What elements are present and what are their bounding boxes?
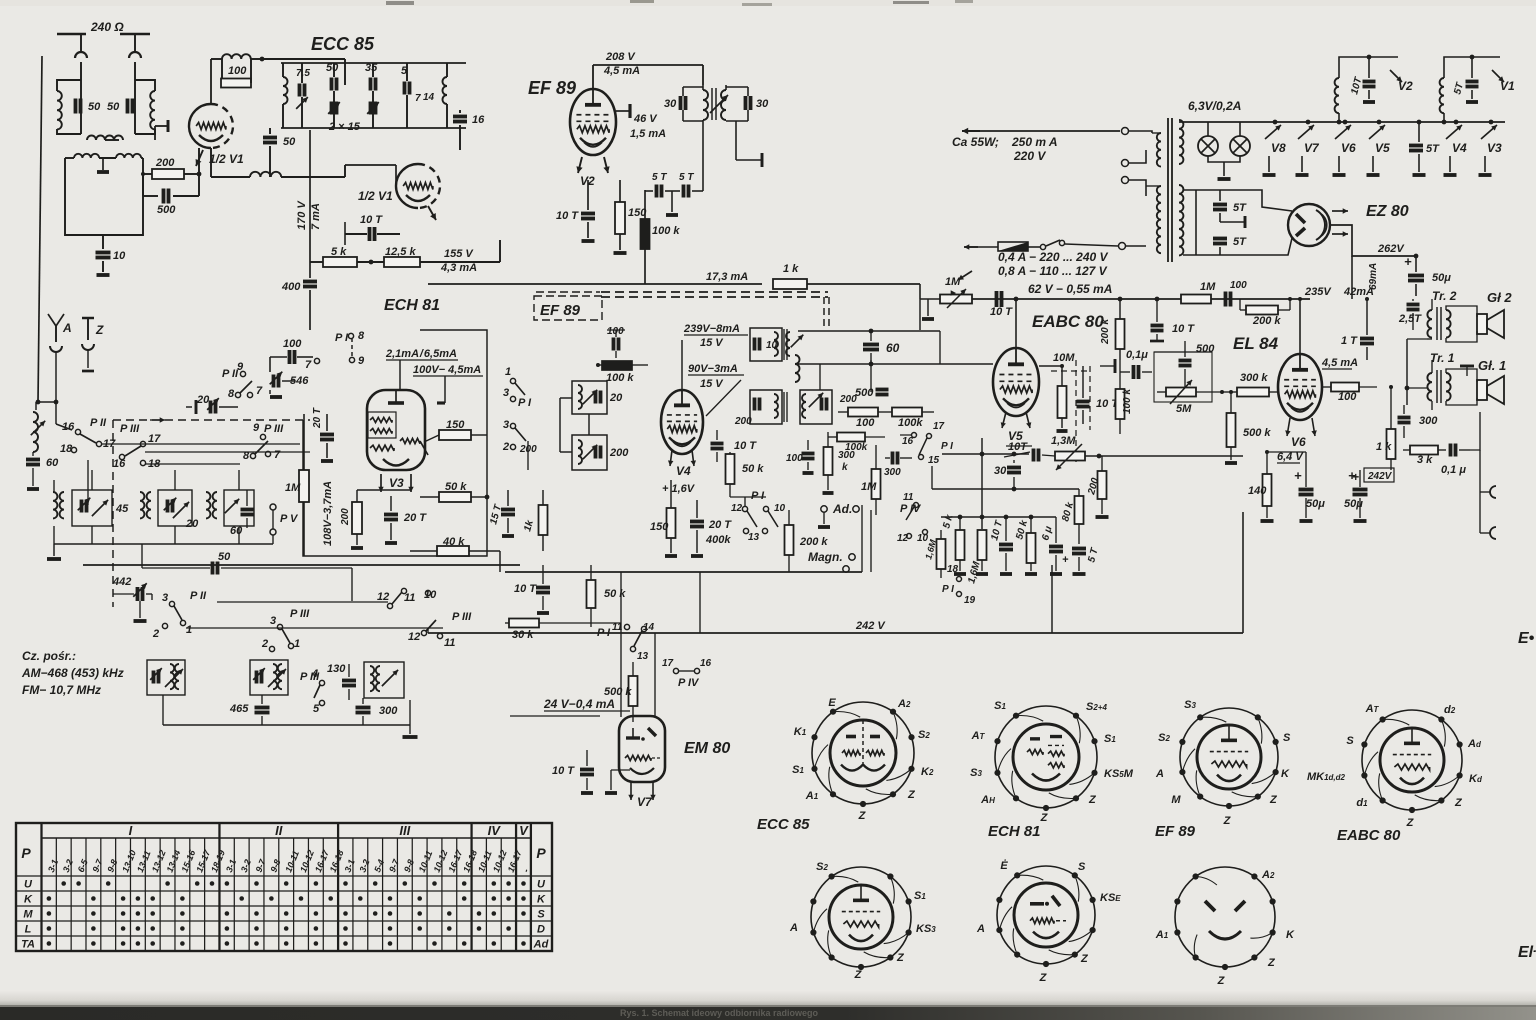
- svg-text:100k: 100k: [845, 442, 868, 453]
- svg-text:262V: 262V: [1377, 243, 1405, 255]
- svg-text:200: 200: [155, 157, 175, 169]
- ift1 trim arrow: [710, 95, 728, 113]
- shield dashed bus: [601, 291, 828, 293]
- arrow V5 b: [1026, 412, 1030, 428]
- capacitor 10T eabc: [1077, 400, 1090, 404]
- svg-text:ECH 81: ECH 81: [384, 297, 440, 314]
- jack pickup 2: [1490, 527, 1496, 539]
- ift2a box: [572, 381, 607, 414]
- capacitor 10T top: [1151, 324, 1164, 328]
- transformer input primary: [74, 154, 99, 158]
- resistor 300k el84: [1237, 388, 1269, 397]
- lamp dial 2: [1239, 122, 1241, 136]
- svg-text:V3: V3: [389, 476, 404, 490]
- coil input L2: [150, 91, 155, 129]
- svg-text:+: +: [1404, 254, 1412, 269]
- rectifier EZ80 envelope: [1288, 204, 1330, 246]
- capacitor 60 fm: [26, 458, 40, 462]
- svg-text:12: 12: [377, 591, 389, 603]
- svg-text:16: 16: [472, 114, 485, 126]
- svg-text:10 T: 10 T: [514, 583, 537, 595]
- svg-text:0,1 μ: 0,1 μ: [1441, 464, 1466, 476]
- rectifier EZ80 plates: [1296, 214, 1305, 223]
- arrow V1 heater: [1492, 70, 1504, 82]
- svg-text:30: 30: [664, 98, 677, 110]
- svg-text:200: 200: [734, 416, 752, 427]
- wire v4 anode: [681, 352, 683, 390]
- wire dipole top-right: [120, 33, 150, 35]
- wire heater bus: [1179, 121, 1505, 123]
- svg-text:1M: 1M: [285, 482, 301, 494]
- resistor 16M left: [937, 539, 946, 569]
- svg-text:E•: E•: [1518, 630, 1535, 647]
- svg-text:P III: P III: [290, 608, 310, 620]
- svg-text:+: +: [1294, 468, 1302, 483]
- svg-text:2,5T: 2,5T: [1398, 313, 1422, 325]
- svg-text:S3: S3: [970, 767, 982, 779]
- capacitor 500 eabc: [1179, 359, 1192, 363]
- svg-text:0,1μ: 0,1μ: [1126, 349, 1148, 361]
- ground 5T: [671, 191, 673, 212]
- wire xfmr box: [65, 158, 143, 235]
- svg-text:V1: V1: [1500, 79, 1515, 93]
- heater tap V5: [1377, 120, 1382, 125]
- svg-text:0,4 A − 220 ... 240 V: 0,4 A − 220 ... 240 V: [998, 250, 1109, 264]
- resistor 40k ech: [437, 546, 469, 556]
- svg-text:S2+4: S2+4: [1086, 701, 1107, 713]
- svg-text:Eŀ: Eŀ: [1518, 944, 1536, 961]
- svg-text:242 V: 242 V: [855, 620, 886, 632]
- svg-text:10M: 10M: [1053, 352, 1075, 364]
- svg-text:1: 1: [505, 366, 511, 378]
- svg-text:A: A: [62, 321, 72, 335]
- resistor 150 ef89: [615, 202, 625, 234]
- svg-text:V3: V3: [1487, 141, 1502, 155]
- svg-text:16: 16: [700, 658, 712, 669]
- wire sw right drop: [527, 441, 529, 470]
- svg-text:300 k: 300 k: [1240, 372, 1268, 384]
- svg-text:60: 60: [46, 457, 59, 469]
- wire riser mid: [699, 572, 701, 633]
- contact 18 b: [140, 460, 145, 465]
- wire osc row2: [186, 627, 443, 629]
- transformer primary upper: [1157, 133, 1161, 167]
- arrow V6 b: [1312, 418, 1315, 436]
- svg-text:2: 2: [152, 628, 159, 640]
- resistor 30k: [509, 619, 539, 628]
- capacitor 20T v4: [690, 520, 704, 524]
- rc block V1 wire: [1444, 57, 1500, 78]
- svg-text:P III: P III: [452, 611, 472, 623]
- svg-text:30: 30: [994, 465, 1007, 477]
- svg-text:100: 100: [1338, 391, 1357, 403]
- svg-text:17: 17: [662, 658, 674, 669]
- wire coil to right: [281, 176, 345, 178]
- socket EABC80: [1362, 710, 1462, 810]
- svg-text:100 k: 100 k: [652, 225, 680, 237]
- resistor 100k det3: [837, 433, 865, 442]
- svg-text:Z: Z: [858, 810, 867, 822]
- svg-text:A: A: [1155, 768, 1164, 780]
- wire hv to ez80 top: [1183, 190, 1292, 211]
- svg-text:Ad: Ad: [1467, 738, 1482, 750]
- pentode EF89 V2: [570, 89, 616, 155]
- svg-text:III: III: [399, 823, 410, 838]
- resistor 100k agc: [602, 361, 632, 370]
- svg-text:S: S: [1078, 861, 1086, 873]
- svg-text:EF 89: EF 89: [528, 78, 576, 98]
- resistor 3k: [1410, 446, 1438, 455]
- svg-text:45: 45: [115, 503, 129, 515]
- resistor 200k eabc: [1116, 319, 1125, 349]
- arrow V6 a: [1287, 418, 1290, 436]
- svg-text:V2: V2: [1398, 79, 1413, 93]
- svg-text:E: E: [828, 697, 836, 709]
- svg-text:K2: K2: [921, 766, 934, 778]
- svg-text:AH: AH: [980, 794, 995, 806]
- wire el84 grid: [1278, 391, 1279, 393]
- wire A to switch: [55, 402, 57, 424]
- arrow cathode V1b: [428, 206, 436, 220]
- svg-text:2,1mA / 6,5mA: 2,1mA / 6,5mA: [385, 348, 457, 360]
- resistor 100k ef89: [641, 219, 650, 249]
- svg-text:1 T: 1 T: [1341, 335, 1358, 347]
- svg-text:20 T: 20 T: [708, 519, 732, 531]
- svg-text:100V− 4,5mA: 100V− 4,5mA: [413, 364, 481, 376]
- svg-text:4: 4: [311, 668, 318, 680]
- svg-text:P II: P II: [90, 417, 107, 429]
- svg-text:50 k: 50 k: [742, 463, 764, 475]
- svg-text:II: II: [275, 823, 283, 838]
- ift1 box L: [683, 86, 703, 88]
- svg-text:150: 150: [650, 521, 669, 533]
- svg-text:P I: P I: [942, 584, 954, 595]
- svg-text:30: 30: [756, 98, 769, 110]
- wire hv to ez80 bottom: [1183, 238, 1292, 255]
- ground cap 10: [97, 273, 110, 277]
- svg-text:6,4 V: 6,4 V: [1277, 451, 1304, 463]
- svg-text:1M: 1M: [861, 481, 877, 493]
- svg-text:Ad: Ad: [533, 939, 549, 951]
- svg-text:100: 100: [856, 417, 875, 429]
- svg-text:200: 200: [609, 447, 629, 459]
- svg-text:I: I: [129, 823, 133, 838]
- svg-text:16: 16: [902, 436, 914, 447]
- svg-text:400: 400: [281, 281, 301, 293]
- svg-text:235V: 235V: [1304, 286, 1332, 298]
- wire 170V rail: [309, 130, 311, 262]
- svg-text:100: 100: [1230, 280, 1247, 291]
- svg-text:7: 7: [305, 359, 312, 371]
- svg-text:12,5 k: 12,5 k: [385, 246, 416, 258]
- wire 24v: [510, 715, 600, 717]
- svg-text:P I: P I: [518, 397, 532, 409]
- coil input L1: [57, 91, 62, 129]
- enclosure ECH81 stage: [303, 330, 487, 556]
- svg-text:17,3 mA: 17,3 mA: [706, 271, 748, 283]
- coil anode 100: [211, 58, 222, 60]
- transformer Tr2: [1427, 310, 1432, 338]
- svg-text:K: K: [537, 894, 546, 906]
- svg-text:S2: S2: [1158, 732, 1170, 744]
- capacitor 10T agc: [995, 291, 999, 307]
- ech81 zigzag bottom: [370, 445, 394, 451]
- wire agc row517: [941, 516, 1056, 518]
- svg-text:11: 11: [903, 492, 914, 503]
- resistor 200: [152, 169, 184, 179]
- svg-text:11: 11: [404, 592, 415, 604]
- svg-text:Z: Z: [896, 952, 905, 964]
- svg-text:50μ: 50μ: [1432, 272, 1451, 284]
- svg-text:108V−3,7mA: 108V−3,7mA: [322, 481, 334, 546]
- ift am1 box: [147, 660, 185, 695]
- svg-text:20 T: 20 T: [312, 407, 323, 429]
- antenna dipole left lead: [80, 34, 82, 52]
- wire dipole left down: [80, 62, 82, 91]
- resistor 300k det: [824, 447, 833, 475]
- svg-text:V: V: [519, 823, 529, 838]
- svg-text:62 V − 0,55 mA: 62 V − 0,55 mA: [1028, 282, 1112, 296]
- svg-text:20: 20: [185, 518, 199, 530]
- svg-text:M: M: [23, 909, 33, 921]
- wire 13m row: [942, 453, 1029, 455]
- svg-text:240 Ω: 240 Ω: [90, 20, 124, 34]
- svg-text:Z: Z: [907, 789, 916, 801]
- ift fm3 coils: [206, 492, 210, 518]
- svg-text:EABC 80: EABC 80: [1032, 312, 1104, 331]
- svg-text:EL 84: EL 84: [1233, 334, 1279, 353]
- svg-text:KS3: KS3: [916, 923, 936, 935]
- svg-text:K: K: [1281, 768, 1290, 780]
- svg-text:P II: P II: [190, 590, 207, 602]
- svg-text:100: 100: [228, 65, 247, 77]
- svg-text:100 k: 100 k: [606, 372, 634, 384]
- svg-text:239V−8mA: 239V−8mA: [683, 323, 740, 335]
- svg-text:50μ: 50μ: [1306, 498, 1325, 510]
- svg-text:V4: V4: [676, 464, 691, 478]
- svg-text:10 T: 10 T: [1172, 323, 1195, 335]
- svg-text:K: K: [24, 894, 33, 906]
- resistor 100k eabc: [1116, 389, 1125, 419]
- svg-text:TA: TA: [21, 939, 35, 951]
- arrow V4 b: [692, 450, 694, 466]
- svg-text:Tr. 2: Tr. 2: [1432, 289, 1457, 303]
- svg-text:16: 16: [113, 458, 126, 470]
- svg-text:K1: K1: [794, 726, 807, 738]
- svg-text:Tr. 1: Tr. 1: [1430, 351, 1455, 365]
- svg-text:500 k: 500 k: [1243, 427, 1271, 439]
- socket EF89: [1180, 708, 1278, 806]
- pot 1.3M: [1042, 455, 1055, 456]
- svg-text:250 m A: 250 m A: [1011, 135, 1058, 149]
- arrow bottom plug: [958, 271, 972, 280]
- wire det vert 2: [870, 360, 872, 392]
- capacitor 10T det: [711, 442, 724, 446]
- svg-text:5T: 5T: [1426, 143, 1440, 155]
- ift1 cap 30 L: [679, 96, 683, 110]
- node ant row: [38, 401, 56, 403]
- svg-text:7 mA: 7 mA: [310, 203, 322, 230]
- svg-text:7,5: 7,5: [296, 68, 310, 79]
- svg-text:15: 15: [928, 455, 940, 466]
- socket EM80: [997, 866, 1095, 964]
- svg-text:Gł. 1: Gł. 1: [1478, 358, 1506, 373]
- svg-text:KSE: KSE: [1100, 892, 1121, 904]
- table program matrix: [16, 823, 552, 951]
- wire am bus: [163, 724, 410, 726]
- svg-text:10 T: 10 T: [360, 214, 383, 226]
- svg-text:10T: 10T: [1008, 441, 1028, 453]
- coil tuning right: [443, 77, 448, 104]
- svg-text:AM−468 (453) kHz: AM−468 (453) kHz: [21, 666, 124, 680]
- capacitor 1T: [1360, 337, 1374, 341]
- heptode ECH81: [367, 390, 425, 470]
- wire tuning rail bottom: [281, 127, 466, 129]
- capacitor 100 b: [1224, 292, 1228, 307]
- svg-text:M: M: [1171, 794, 1181, 806]
- svg-text:200 k: 200 k: [1252, 315, 1281, 327]
- ift3a sec: [786, 332, 790, 356]
- transformer core: [1167, 118, 1169, 262]
- svg-text:1M: 1M: [945, 276, 961, 288]
- svg-text:10 T: 10 T: [734, 440, 757, 452]
- capacitor 300 out: [1398, 416, 1411, 420]
- wire el84 anode: [1299, 299, 1301, 354]
- svg-text:A: A: [976, 923, 985, 935]
- svg-text:15 V: 15 V: [700, 337, 724, 349]
- svg-text:P: P: [21, 845, 31, 861]
- svg-text:IV: IV: [488, 823, 502, 838]
- wire tr2 sec: [1446, 306, 1477, 317]
- svg-text:P I: P I: [751, 490, 765, 502]
- arrow V2 k2: [604, 157, 608, 173]
- svg-text:242V: 242V: [1367, 471, 1393, 482]
- rc block V2 wire: [1339, 57, 1398, 78]
- wire ift2 links: [588, 414, 590, 435]
- svg-text:24 V−0,4 mA: 24 V−0,4 mA: [543, 697, 615, 711]
- pointer 90V: [706, 380, 741, 416]
- resistor 140: [1263, 474, 1272, 506]
- capacitor 60 det: [863, 343, 879, 347]
- svg-text:Z: Z: [1269, 794, 1278, 806]
- svg-text:130: 130: [327, 663, 346, 675]
- svg-text:8: 8: [358, 330, 365, 342]
- svg-text:300: 300: [1419, 415, 1438, 427]
- svg-text:A1: A1: [1155, 929, 1169, 941]
- svg-text:220 V: 220 V: [1013, 149, 1046, 163]
- wire ift row1 bus: [54, 543, 273, 545]
- capacitor 5T heater: [1409, 144, 1423, 148]
- heater tap V3: [1489, 120, 1494, 125]
- arrow V7 a: [630, 782, 632, 800]
- svg-text:18: 18: [947, 564, 959, 575]
- svg-text:A: A: [789, 922, 798, 934]
- svg-text:19: 19: [964, 595, 976, 606]
- svg-text:400k: 400k: [705, 534, 731, 546]
- capacitor 10: [102, 235, 104, 249]
- arrow V3 a: [380, 474, 382, 492]
- wire tr2 pri: [1431, 299, 1433, 310]
- wire bus62 to det: [919, 299, 921, 330]
- wire ef89 out drop: [702, 121, 704, 191]
- svg-text:V5: V5: [1375, 141, 1390, 155]
- wire main bus left: [83, 564, 520, 566]
- resistor 500 det: [876, 388, 889, 392]
- svg-text:50 k: 50 k: [604, 588, 626, 600]
- rc block V2 coil: [1335, 78, 1339, 113]
- svg-text:S1: S1: [1104, 733, 1116, 745]
- svg-text:46 V: 46 V: [633, 113, 658, 125]
- resistor 1M ech: [299, 470, 309, 502]
- resistor 1M det: [872, 469, 881, 499]
- terminal mains 1: [1122, 128, 1129, 135]
- wire mains top: [962, 130, 980, 132]
- svg-text:5M: 5M: [1176, 403, 1192, 415]
- ift3b sec: [800, 390, 832, 424]
- resistor 200k det: [785, 525, 794, 555]
- antenna dipole right lead: [134, 34, 136, 52]
- lamp dial 1: [1207, 122, 1209, 136]
- wire bus 242: [428, 632, 1243, 634]
- svg-text:5: 5: [313, 703, 320, 715]
- capacitor 10T agc2: [999, 543, 1013, 547]
- switch mains: [1028, 246, 1040, 248]
- heater tap V8: [1273, 120, 1278, 125]
- svg-text:A2: A2: [897, 698, 911, 710]
- arrow V2 k1: [578, 157, 582, 173]
- dashed box 5M: [1154, 352, 1212, 402]
- wire avc 2: [700, 283, 762, 285]
- svg-text:16: 16: [62, 421, 75, 433]
- antenna Z: [82, 317, 94, 319]
- svg-text:140: 140: [1248, 485, 1267, 497]
- svg-text:Z: Z: [95, 323, 104, 337]
- capacitor 300: [356, 706, 371, 710]
- resistor 5k agc: [956, 530, 965, 560]
- capacitor 30: [1007, 466, 1021, 470]
- arrow V3 b: [410, 474, 412, 492]
- svg-text:5 T: 5 T: [652, 172, 667, 183]
- svg-text:Z: Z: [854, 969, 863, 981]
- svg-text:9: 9: [253, 422, 260, 434]
- svg-text:9: 9: [358, 355, 365, 367]
- resistor 50k det: [726, 454, 735, 484]
- svg-text:S1: S1: [914, 890, 926, 902]
- svg-text:4,5 mA: 4,5 mA: [603, 65, 640, 77]
- arrow EZ80 out1: [1332, 210, 1348, 212]
- svg-text:A1: A1: [805, 790, 819, 802]
- ift3a: [750, 328, 782, 361]
- svg-text:AT: AT: [971, 730, 986, 742]
- wire dipole top-left: [57, 33, 86, 35]
- transformer heater winding: [1179, 120, 1183, 164]
- resistor 12.5k: [384, 257, 420, 267]
- svg-text:Z: Z: [1080, 953, 1089, 965]
- svg-text:4,3 mA: 4,3 mA: [440, 262, 477, 274]
- resistor 200 tone: [1098, 471, 1107, 499]
- svg-text:Z: Z: [1039, 972, 1048, 984]
- dashed horiz divider: [113, 419, 310, 421]
- svg-text:1,3M: 1,3M: [1051, 435, 1076, 447]
- svg-text:90V−3mA: 90V−3mA: [688, 363, 738, 375]
- tube EL84: [1278, 354, 1322, 420]
- wire hv join: [1195, 190, 1197, 255]
- svg-text:d2: d2: [1444, 704, 1456, 716]
- svg-text:P: P: [536, 845, 546, 861]
- socket Ad: [821, 506, 827, 512]
- socket ECC85: [812, 702, 914, 804]
- svg-text:U: U: [24, 879, 33, 891]
